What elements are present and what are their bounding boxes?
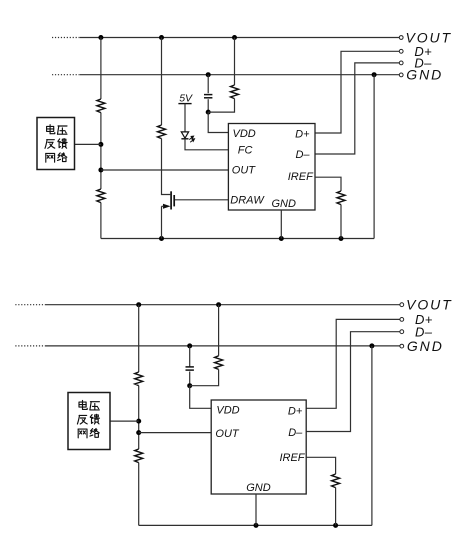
node junction GND/C1 [206,72,211,77]
resistor R4 (VDD feed, top circuit) [231,85,239,99]
wire IC GND pin to ground rail (top) [280,210,282,239]
wire R2 to bottom rail [100,203,102,239]
wire GND rail dotted lead-in (bottom) [15,345,46,347]
resistor R3 (drain load, top circuit) [158,125,166,139]
node junction IC GND/ground (bottom) [254,523,259,528]
svg-text:GND: GND [246,482,271,494]
wire bottom ground rail (bottom circuit) [139,524,372,526]
terminal D- (top) [399,56,432,71]
wire GND rail (bottom circuit) [46,345,400,347]
node junction GND drop (bottom) [369,343,374,348]
wire VOUT to R4b [218,305,220,356]
wire VOUT to R1b [138,305,140,372]
svg-text:IREF: IREF [279,452,305,464]
node junction IC GND/ground [279,236,284,241]
resistor R2 (lower divider, top circuit) [97,189,105,203]
wire VOUT rail dotted lead-in (bottom) [15,304,46,306]
wire OUT line to IC (top) [101,169,228,171]
wire D- pin to D- terminal (top) [315,63,399,154]
wire R5 to ground rail [340,205,342,239]
node VDD junction (bottom) [187,383,192,388]
text char 压 [90,402,100,410]
svg-text:D+: D+ [288,406,303,418]
terminal D- (bottom) [400,324,433,339]
node feedback tap (bottom) [136,419,141,424]
wire GND rail to C1 top plate [207,75,209,94]
resistor R5b (IREF set, bottom circuit) [332,474,340,488]
node OUT junction (bottom) [136,430,141,435]
wire D+ pin to D+ terminal (top) [315,51,399,133]
block feedback network 1 (voltage feedback network box) [37,118,75,170]
node OUT junction (top) [98,168,103,173]
text char 压 [58,126,68,134]
wire R1 to R2 [100,113,102,189]
wire MOSFET gate to DRAW pin [175,199,228,201]
node junction VOUT/R3 [159,35,164,40]
svg-text:IREF: IREF [288,171,314,183]
text char 反 [45,140,55,149]
svg-text:VDD: VDD [233,128,256,140]
resistor R5 (IREF set, top circuit) [337,191,345,205]
wire MOSFET source to ground rail [161,206,163,238]
text char 络 [90,429,99,438]
wire feedback box to divider tap (bottom) [110,420,139,422]
svg-text:OUT: OUT [215,428,240,440]
text char 电 [79,400,87,409]
resistor R2b (lower divider, bottom circuit) [135,449,143,463]
text char 反 [77,415,87,424]
node junction VOUT/R1 [98,35,103,40]
wire IREF pin to R5 [315,177,341,191]
wire R5b to ground rail [335,488,337,526]
svg-text:D–: D– [414,56,432,71]
wire R4b to VDD node [190,369,219,385]
wire 5V to diode anode [184,104,186,132]
wire IC GND pin to ground rail (bottom) [255,494,257,525]
text char 电 [47,125,55,134]
capacitor C1b (VDD bypass, bottom circuit) [186,367,194,370]
resistor R1b (upper divider, bottom circuit) [135,372,143,386]
wire VOUT to R4 [234,38,236,86]
wire GND rail (top circuit) [80,74,399,76]
op-amp U2 (controller IC, bottom circuit) [211,400,306,494]
node junction VOUT/R4 [232,35,237,40]
wire VOUT rail dotted lead-in (top) [52,37,80,39]
svg-text:5V: 5V [179,92,193,104]
node VDD junction (top) [206,110,211,115]
wire GND rail to C1b top plate [189,346,191,367]
transistor Q1 (NMOS, DRAW switch) [162,191,175,209]
node junction IREF resistor/ground (bottom) [333,523,338,528]
terminal D+ (top) [399,44,432,59]
svg-text:D–: D– [295,149,310,161]
wire GND drop right side (top circuit) [373,75,375,239]
node junction MOSFET source/ground [159,236,164,241]
wire VOUT to R1 [100,38,102,100]
svg-text:D–: D– [415,324,433,339]
wire C1b bottom plate to VDD node [189,372,191,386]
text char 网 [46,153,55,162]
wire C1 bottom plate to VDD node [207,99,209,112]
svg-text:VDD: VDD [216,405,239,417]
wire VOUT to R3 [161,38,163,126]
text char 网 [78,429,87,438]
terminal GND (bottom) [400,338,444,354]
node feedback tap (top) [98,142,103,147]
svg-text:GND: GND [272,198,297,210]
svg-text:VOUT: VOUT [406,29,453,45]
wire bottom ground rail (top circuit) [101,238,374,240]
wire R1b to R2b [138,386,140,449]
svg-text:DRAW: DRAW [230,194,265,206]
node junction VOUT/R1b [136,302,141,307]
wire R4 to VDD node [208,99,234,113]
wire VDD node to VDD pin (bottom) [190,386,212,409]
power label 5V [178,92,193,104]
wire D- pin to D- terminal (bottom) [306,332,400,432]
text char 馈 [58,139,67,149]
terminal VOUT (top) [399,29,452,45]
op-amp U1 (controller IC, top circuit) [228,124,315,211]
terminal GND (top) [399,67,443,83]
wire GND drop right side (bottom circuit) [371,346,373,526]
svg-text:OUT: OUT [232,165,256,177]
wire R3 to MOSFET drain [162,139,171,195]
wire IREF pin to R5b [306,457,335,474]
terminal VOUT (bottom) [400,297,453,313]
text char 络 [58,153,67,162]
text char 馈 [90,414,99,424]
svg-text:FC: FC [238,145,253,157]
svg-text:GND: GND [407,338,444,354]
wire R2b to bottom rail [138,463,140,526]
node junction GND/C1b [187,343,192,348]
node junction GND drop [372,72,377,77]
svg-text:D+: D+ [295,128,310,140]
resistor R1 (upper divider, top circuit) [97,99,105,113]
wire VOUT rail (top circuit) [80,37,399,39]
svg-text:VOUT: VOUT [406,297,453,313]
diode D1 (LED indicator) [181,132,194,142]
svg-text:D–: D– [288,427,303,439]
terminal D+ (bottom) [400,312,433,327]
wire D+ pin to D+ terminal (bottom) [306,319,400,408]
resistor R4b (VDD feed, bottom circuit) [215,356,223,370]
wire GND rail dotted lead-in (top) [52,74,80,76]
block feedback network 2 (voltage feedback network box) [68,393,110,450]
wire VDD node to VDD pin [208,112,228,132]
capacitor C1 (VDD bypass, top circuit) [204,95,212,98]
node junction VOUT/R4b [216,302,221,307]
wire feedback box to divider tap (top) [75,143,101,145]
wire OUT line to IC (bottom) [139,432,212,434]
node junction IREF resistor/ground [339,236,344,241]
wire VOUT rail (bottom circuit) [46,304,400,306]
wire diode cathode to FC pin [185,139,228,150]
